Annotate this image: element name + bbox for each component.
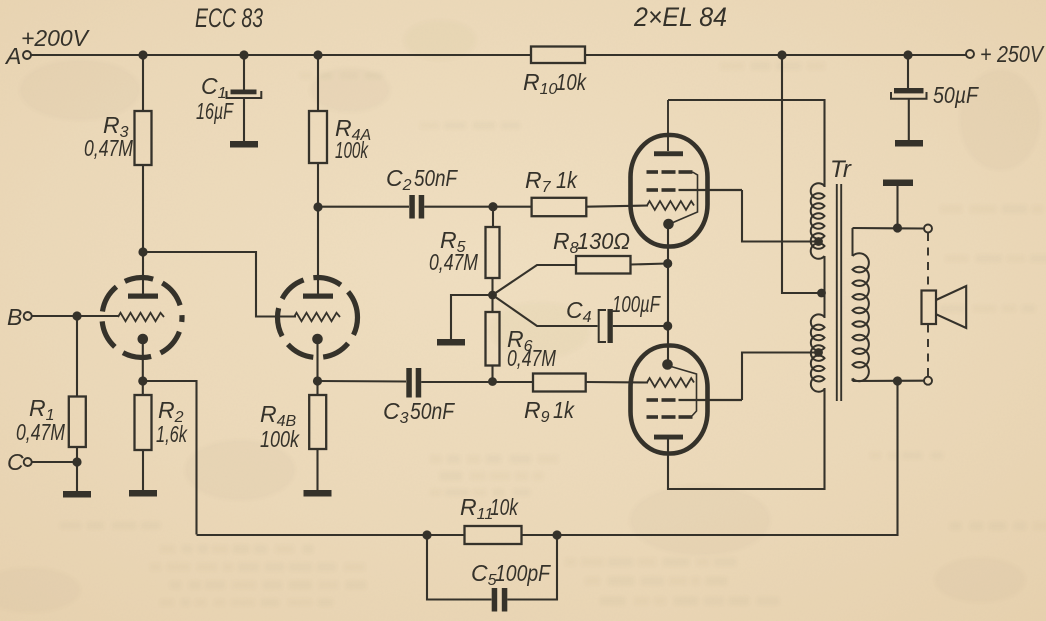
svg-text:+ 250V: + 250V: [980, 41, 1045, 67]
svg-text:1k: 1k: [556, 167, 578, 193]
svg-text:2×EL 84: 2×EL 84: [633, 2, 727, 32]
svg-text:A: A: [4, 43, 21, 69]
svg-text:50nF: 50nF: [410, 398, 456, 424]
svg-text:100k: 100k: [260, 426, 300, 452]
svg-text:B: B: [7, 304, 22, 330]
svg-text:10k: 10k: [490, 494, 519, 520]
svg-text:100pF: 100pF: [495, 560, 552, 586]
svg-text:1k: 1k: [553, 397, 575, 423]
svg-text:ECC 83: ECC 83: [195, 3, 263, 33]
svg-text:130Ω: 130Ω: [577, 228, 630, 254]
svg-text:16µF: 16µF: [196, 98, 234, 124]
svg-text:50µF: 50µF: [933, 82, 980, 108]
svg-text:100µF: 100µF: [612, 291, 661, 317]
svg-text:50nF: 50nF: [414, 165, 459, 191]
svg-text:+200V: +200V: [21, 25, 91, 51]
svg-text:0,47M: 0,47M: [429, 249, 479, 275]
svg-text:0,47M: 0,47M: [16, 419, 66, 445]
svg-text:Tr: Tr: [830, 156, 852, 183]
svg-text:100k: 100k: [335, 137, 369, 163]
svg-text:1,6k: 1,6k: [156, 421, 188, 447]
svg-text:10k: 10k: [556, 69, 587, 95]
svg-text:0,47M: 0,47M: [507, 345, 557, 371]
svg-text:0,47M: 0,47M: [84, 135, 134, 161]
svg-text:C: C: [7, 449, 24, 475]
